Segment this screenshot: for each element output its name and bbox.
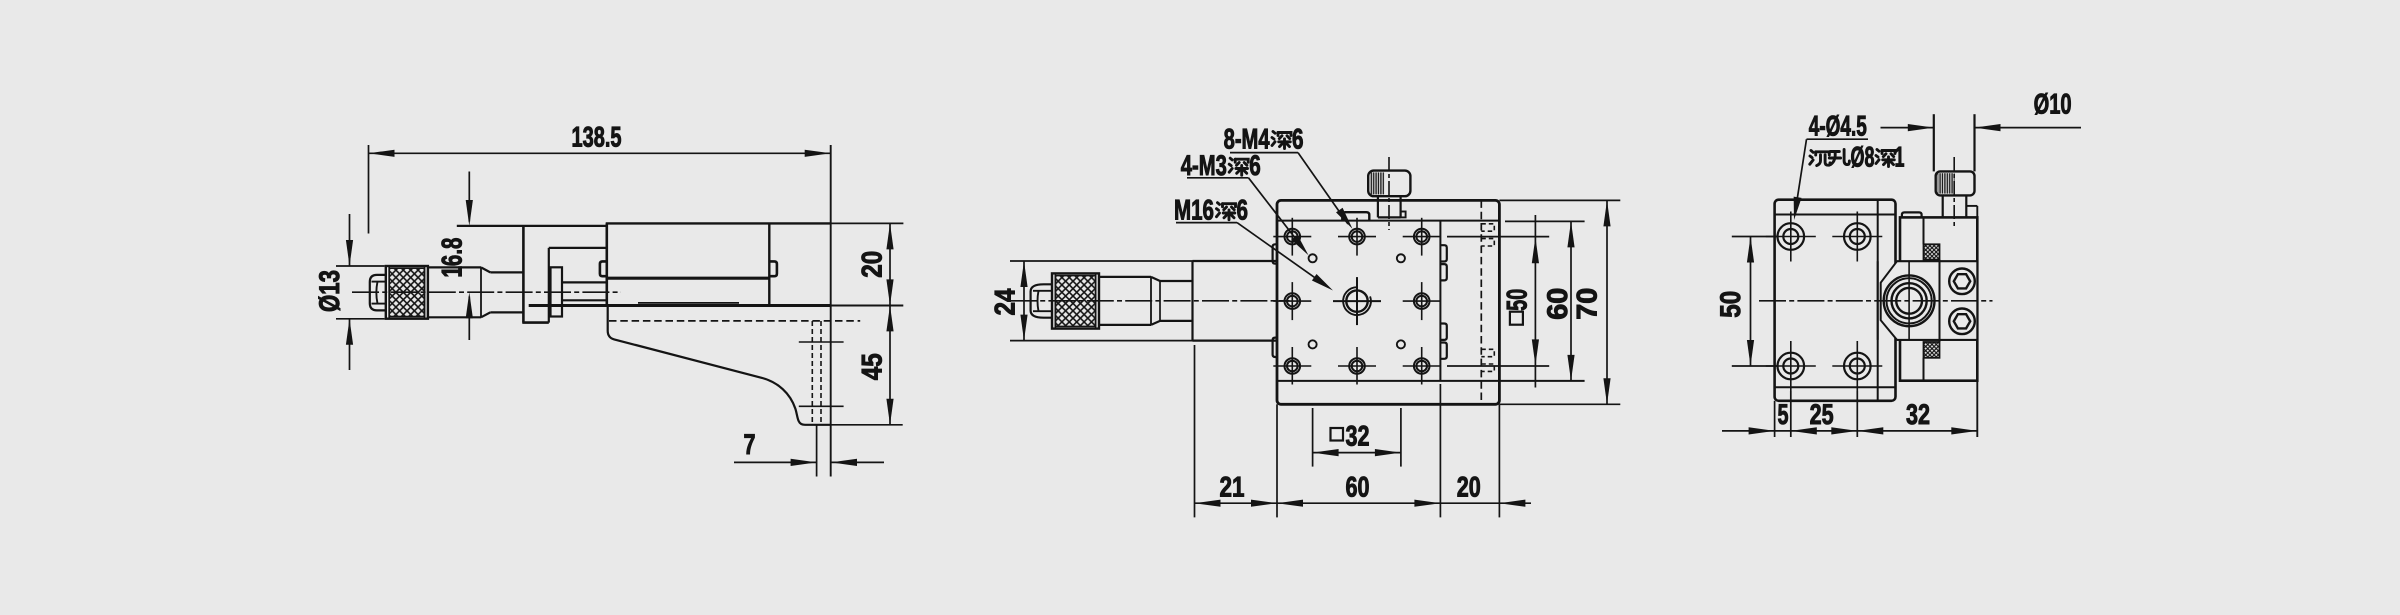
top view: gib clips on body left edge	[1273, 244, 1277, 357]
side view: hidden hole tick lower	[799, 405, 844, 407]
side view: dimension 138.5 line with arrows	[369, 150, 831, 157]
end view: dimension Phi10 arrows	[1881, 124, 2082, 131]
top view: M4 threaded hole 5	[1403, 282, 1441, 320]
top view: hidden gib steps dashed	[1481, 224, 1494, 372]
side view: knurled knob Phi13	[386, 266, 428, 319]
side view: dimension 138.5 extension line left	[368, 145, 370, 234]
side view: moving block bottom gap line	[638, 302, 739, 304]
side view: moving block right vertical edge	[768, 223, 770, 305]
side view: bracket bottom extension line	[831, 424, 903, 426]
end view: block partition lines	[1897, 261, 1977, 340]
top view: dimension 60 vertical extension line	[1505, 220, 1585, 222]
top view: M3 hole 3	[1309, 340, 1317, 348]
svg-text:138.5: 138.5	[572, 122, 622, 154]
top view: dimension square-32 line with arrows	[1313, 449, 1401, 456]
top view: M16 central threaded hole	[1333, 277, 1381, 325]
svg-text:50: 50	[1501, 289, 1533, 311]
top view: platform top edge	[1277, 220, 1499, 222]
side view: dimension text 16.8	[437, 238, 469, 278]
side view: spindle nut block	[551, 267, 563, 316]
svg-text:24: 24	[990, 288, 1022, 315]
side view: gib clip right	[769, 261, 777, 276]
top view: leader to M4 hole	[1298, 153, 1356, 232]
side view: hidden mounting hole dashed lines	[812, 321, 821, 425]
top view: dimension 60 vertical line with arrows	[1567, 221, 1574, 381]
svg-text:21: 21	[1220, 472, 1245, 504]
svg-text:32: 32	[1906, 399, 1930, 431]
end view: micrometer boss pad with chamfers	[1881, 261, 1978, 340]
end view: clamp slot edges	[1924, 217, 1940, 380]
top view: knurled knob	[1052, 273, 1099, 328]
top view: leader to M16 hole	[1237, 223, 1335, 294]
side view: gib clip left	[600, 261, 607, 276]
side view: bracket profile	[608, 305, 831, 424]
end view: plate inset edge lines	[1775, 200, 1896, 401]
end view: clamp block outline	[1900, 217, 1977, 380]
top view: M4 threaded hole 1	[1273, 218, 1311, 256]
side view: spindle shaft	[562, 282, 606, 300]
end view: counterbore hole 4-Phi4.5 number 4	[1832, 341, 1882, 391]
side view: dimensions 20 and 45 line	[886, 223, 893, 424]
top view: index tab on top edge	[1342, 212, 1369, 220]
top view: platform bottom edge and 60 extension	[1277, 380, 1585, 382]
end view: leader to counterbore hole	[1790, 139, 1806, 220]
top view: dimension 70 line with arrows	[1603, 200, 1610, 404]
side view: dimension Phi13 arrows	[346, 214, 353, 370]
top view: M4 threaded hole 4	[1273, 282, 1311, 320]
svg-text:Ø10: Ø10	[2034, 89, 2072, 121]
end view: dimension 50 extension lines	[1732, 237, 1778, 367]
end view: dimension 32 line	[1857, 427, 1977, 434]
top view: dimension text 24	[990, 288, 1022, 315]
top view: dimension text 60 vertical	[1542, 288, 1574, 320]
end view: counterbore hole 4-Phi4.5 number 1	[1766, 212, 1816, 262]
top view: M3 hole 4	[1397, 340, 1405, 348]
svg-text:5: 5	[1778, 399, 1789, 431]
side view: micrometer tip cap	[370, 275, 386, 311]
side view: dimension 16.8 arrows	[466, 172, 473, 341]
svg-text:32: 32	[1346, 421, 1370, 453]
svg-text:6: 6	[1249, 150, 1261, 182]
top view: dimension text square-50	[1501, 289, 1533, 325]
svg-text:7: 7	[744, 429, 756, 461]
side view: dimension 7 arrows	[734, 459, 884, 466]
end view: counterbore hole 4-Phi4.5 number 3	[1766, 341, 1816, 391]
end view: dimension 50 line with arrows	[1747, 237, 1754, 367]
top view: bottom dimension extension lines	[1195, 345, 1500, 517]
svg-text:1: 1	[1895, 141, 1905, 173]
top view: dimension 24 line with arrows	[1020, 261, 1027, 341]
top view: body outline	[1277, 200, 1499, 404]
side view: dimension 7 extension line	[816, 425, 818, 477]
side view: dimension text 20	[857, 251, 889, 278]
svg-text:Ø13: Ø13	[314, 270, 346, 312]
side view: micrometer axis centerline	[352, 291, 621, 293]
top view: dimension text 20	[1457, 472, 1481, 504]
top view: M4 threaded hole 7	[1338, 347, 1376, 385]
top view: dimension text square-32	[1331, 421, 1370, 453]
end view: shaft centerline	[1953, 157, 1955, 228]
end view: label 4-Phi4.5	[1807, 111, 1869, 143]
end view: boss vertical centerline	[1908, 261, 1910, 340]
svg-text:60: 60	[1542, 288, 1574, 320]
svg-text:6: 6	[1237, 195, 1249, 227]
side view: dimension text 7	[744, 429, 756, 461]
end view: plate inset line over pad	[1877, 261, 1879, 340]
side view: base top edge thick line	[529, 304, 904, 307]
svg-text:60: 60	[1346, 472, 1370, 504]
top view: clamp screw centerline	[1388, 157, 1390, 230]
top view: micrometer mounting sleeve	[1193, 261, 1278, 341]
side view: dimension text 45	[857, 353, 889, 380]
end view: clamp knob stem	[1943, 195, 1978, 217]
top view: dimension 21 line with arrows	[1195, 500, 1278, 507]
svg-text:70: 70	[1572, 288, 1604, 320]
svg-text:6: 6	[1292, 123, 1304, 155]
end view: mounting plate outline	[1775, 200, 1896, 401]
top view: dimension square-50 extension lines	[1447, 237, 1549, 366]
side view: top surface edge left segment	[457, 225, 606, 227]
end view: dimension text 25	[1810, 399, 1834, 431]
side view: hidden hole tick upper	[799, 341, 844, 343]
top view: leader to M3 hole	[1249, 178, 1312, 258]
top view: dimension 70 extension lines	[1499, 200, 1620, 404]
side view: dimension Phi13 extension lines	[336, 266, 385, 319]
end view: index tab on block top	[1902, 212, 1922, 217]
top view: M4 threaded hole 2	[1338, 218, 1376, 256]
end view: horizontal centerline	[1759, 300, 1993, 302]
top view: dimension 60 line with arrows	[1277, 500, 1440, 507]
top view: label 4-M3 deep 6	[1181, 150, 1261, 182]
svg-text:20: 20	[1457, 472, 1481, 504]
side view: top surface extension to dimension 20	[831, 222, 904, 224]
top view: axis centerline	[1010, 300, 1290, 302]
end view: hex socket screw lower	[1949, 309, 1975, 335]
svg-text:20: 20	[857, 251, 889, 278]
top view: micrometer tip cap	[1031, 284, 1052, 317]
side view: micrometer barrel	[428, 267, 524, 317]
end view: label counterbore Phi8 deep 1	[1810, 141, 1905, 173]
side view: dimension text Phi13	[314, 270, 346, 312]
end view: dimension text Phi10	[2034, 89, 2072, 121]
top view: micrometer thimble and barrel	[1099, 277, 1193, 325]
side view: dovetail interface thick line	[607, 277, 770, 280]
side view: hidden edge dashed line	[609, 320, 860, 322]
end view: bottom dimension extension lines	[1775, 381, 1978, 437]
end view: clamp knurl pad lower	[1924, 342, 1940, 358]
top view: label M16 deep 6	[1174, 195, 1248, 227]
end view: hex socket screw upper	[1949, 269, 1975, 295]
side view: right edge and extension line	[830, 145, 832, 477]
svg-text:50: 50	[1715, 291, 1747, 318]
top view: platform right edge	[1439, 221, 1441, 381]
svg-text:45: 45	[857, 353, 889, 380]
top view: dimension text 70	[1572, 288, 1604, 320]
end view: micrometer shaft Phi10	[1934, 114, 1975, 171]
end view: dimension text 50	[1715, 291, 1747, 318]
top view: clamp screw stem	[1378, 196, 1406, 217]
end view: clamp knurl pad upper	[1924, 244, 1940, 259]
top view: dimension text 60	[1346, 472, 1370, 504]
top view: dimension 24 extension lines	[1010, 261, 1193, 341]
end view: micrometer boss circles	[1884, 275, 1935, 326]
top view: gib clips on platform right edge	[1440, 245, 1446, 359]
side view: dimension text 138.5	[572, 122, 622, 154]
top view: dimension square-50 arrows	[1532, 215, 1539, 388]
top view: M3 hole 1	[1309, 254, 1317, 262]
svg-text:4-Ø4.5: 4-Ø4.5	[1809, 111, 1867, 143]
top view: dimension 20 line with outside arrow	[1440, 500, 1531, 507]
svg-text:16.8: 16.8	[437, 238, 469, 278]
svg-text:Ø8: Ø8	[1851, 141, 1875, 173]
top view: M3 hole 2	[1397, 254, 1405, 262]
top view: M4 threaded hole 3	[1403, 218, 1441, 256]
top view: clamp knob	[1368, 171, 1410, 197]
end view: clamp knob	[1936, 171, 1975, 195]
top view: M4 threaded hole 8	[1403, 347, 1441, 385]
end view: counterbore hole 4-Phi4.5 number 2	[1832, 212, 1882, 262]
side view: mounting plate	[522, 226, 605, 323]
end view: dimension 5 outside arrow	[1722, 427, 1775, 434]
svg-text:25: 25	[1810, 399, 1834, 431]
side view: top surface edge right segment	[606, 222, 831, 224]
end view: dimension text 5	[1778, 399, 1789, 431]
svg-text:8-M4: 8-M4	[1224, 123, 1270, 155]
side view: body left vertical edge	[605, 223, 608, 305]
top view: hidden section dashed line	[1480, 200, 1482, 404]
end view: dimension 5-25 line	[1775, 427, 1858, 434]
top view: M4 threaded hole 6	[1273, 347, 1311, 385]
top view: label 8-M4 deep 6	[1224, 123, 1304, 155]
top view: dimension text 21	[1220, 472, 1245, 504]
end view: dimension text 32	[1906, 399, 1930, 431]
